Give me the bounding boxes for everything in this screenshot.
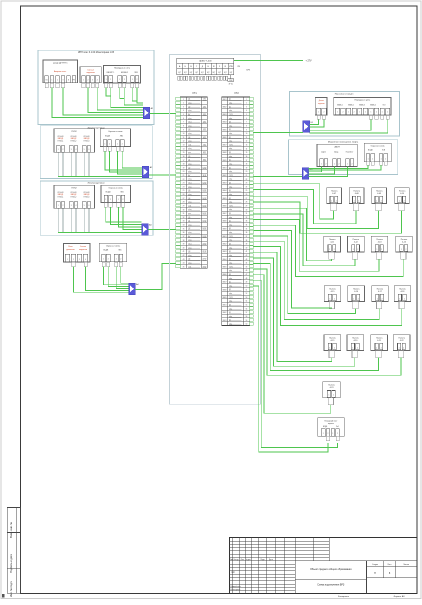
svg-text:1: 1 [83, 80, 84, 82]
svg-text:Д2: Д2 [229, 167, 231, 169]
svg-text:ЩТ: ЩТ [218, 72, 221, 74]
svg-text:ПС1: ПС1 [188, 183, 191, 185]
svg-text:1: 1 [376, 200, 377, 202]
device Охрана и связь (1) [100, 129, 130, 147]
group box Электрощитовая 1 [40, 126, 152, 179]
svg-text:1: 1 [321, 163, 322, 165]
svg-text:1: 1 [334, 163, 335, 165]
svg-text:1: 1 [106, 79, 107, 81]
svg-text:1: 1 [58, 149, 59, 151]
terminal stubs group1 [45, 83, 48, 88]
svg-text:2: 2 [381, 298, 382, 300]
terminal stubs насосная [317, 115, 320, 120]
svg-text:4-11: 4-11 [330, 242, 334, 244]
svg-text:7Л2: 7Л2 [203, 144, 206, 146]
svg-text:ПС1: ПС1 [188, 244, 191, 246]
svg-text:ВВ4В-1: ВВ4В-1 [337, 104, 343, 106]
svg-text:5Л2: 5Л2 [203, 129, 206, 131]
svg-text:Охранная связь: Охранная связь [371, 145, 385, 147]
svg-text:13: 13 [246, 145, 248, 147]
svg-text:4-13: 4-13 [378, 242, 382, 244]
svg-text:Лист: Лист [388, 564, 392, 566]
wires МП to лифт devices [309, 167, 322, 172]
terminal pairs below power block [178, 76, 180, 80]
svg-text:ЩТ: ЩТ [224, 72, 227, 74]
svg-text:Машинное помещение лифта: Машинное помещение лифта [328, 141, 359, 144]
svg-text:4-17: 4-17 [378, 291, 382, 293]
svg-text:2: 2 [124, 79, 125, 81]
svg-text:подпитки: подпитки [79, 249, 87, 251]
svg-text:2: 2 [108, 259, 109, 261]
svg-text:шкаф ДУ НТТ1: шкаф ДУ НТТ1 [53, 62, 68, 65]
block Палата 4-10 [395, 188, 410, 204]
svg-text:3: 3 [92, 80, 93, 82]
svg-text:Палата: Палата [399, 288, 406, 290]
svg-text:Палата: Палата [331, 190, 338, 192]
svg-text:Д3: Д3 [229, 183, 231, 185]
svg-text:2: 2 [339, 163, 340, 165]
svg-text:60: 60 [246, 324, 248, 326]
svg-text:2: 2 [334, 347, 335, 349]
svg-text:Д2: Д2 [229, 137, 231, 139]
svg-text:4-16: 4-16 [354, 291, 358, 293]
block Пожарный пост охраны [318, 418, 345, 436]
svg-text:Передача в цепь: Передача в цепь [355, 100, 371, 102]
svg-text:1: 1 [119, 79, 120, 81]
svg-text:2: 2 [406, 249, 407, 251]
terminal stubs group3 [104, 203, 107, 208]
svg-text:4-20: 4-20 [354, 340, 358, 342]
svg-text:Д2: Д2 [229, 198, 231, 200]
svg-text:2: 2 [365, 112, 366, 114]
device Охранная связь [364, 143, 391, 162]
svg-text:15: 15 [183, 152, 185, 154]
wires XT2 to палаты row 2 [254, 208, 332, 260]
wires XT2 to пожарный пост [254, 280, 338, 447]
svg-text:4: 4 [85, 259, 86, 261]
svg-text:1: 1 [354, 200, 355, 202]
svg-text:6: 6 [88, 205, 89, 207]
block Палата 4-17 [372, 286, 389, 302]
svg-text:Кол.уч: Кол.уч [234, 559, 239, 561]
connector К4 [303, 121, 310, 133]
svg-text:ГЗЛ1: ГЗЛ1 [229, 114, 233, 116]
device Датчик подпитки [315, 97, 327, 115]
svg-text:ЩТ: ЩТ [184, 72, 187, 74]
svg-text:4Л2: 4Л2 [203, 122, 206, 124]
svg-text:1: 1 [103, 259, 104, 261]
svg-text:ВВ04: ВВ04 [223, 259, 227, 261]
svg-text:Д1: Д1 [188, 160, 190, 162]
svg-text:1: 1 [323, 433, 324, 435]
svg-text:23: 23 [246, 183, 248, 185]
svg-text:1: 1 [399, 347, 400, 349]
wire A3 to XT1 [148, 229, 175, 231]
svg-text:ЩТ: ЩТ [230, 72, 233, 74]
wire XT2 to К4 [254, 131, 303, 133]
svg-text:Д4: Д4 [188, 259, 190, 261]
svg-text:ВВ08: ВВ08 [223, 221, 227, 223]
svg-text:17Л2: 17Л2 [203, 221, 207, 223]
svg-text:ГЗЛ1: ГЗЛ1 [229, 266, 233, 268]
svg-text:подпитки: подпитки [86, 72, 94, 74]
wires group1 to connector [52, 88, 143, 118]
svg-text:1: 1 [401, 249, 402, 251]
svg-text:Инв. № подл.: Инв. № подл. [9, 581, 13, 597]
svg-text:Подпись и дата: Подпись и дата [9, 554, 13, 573]
svg-text:3Л2: 3Л2 [203, 114, 206, 116]
svg-text:ВВ03: ВВ03 [223, 114, 227, 116]
svg-text:ВВ03: ВВ03 [223, 183, 227, 185]
connector A3 [142, 224, 149, 236]
svg-text:44: 44 [183, 263, 185, 265]
svg-text:лифт1: лифт1 [321, 151, 326, 154]
svg-text:14: 14 [183, 148, 185, 150]
terminal stubs group4 [72, 262, 75, 267]
svg-text:Д4: Д4 [188, 198, 190, 200]
wires охрана3 to connector [106, 207, 142, 222]
svg-text:давления: давления [66, 249, 74, 251]
svg-text:44: 44 [246, 263, 248, 265]
svg-text:3: 3 [62, 80, 63, 82]
svg-text:Пожарный пост: Пожарный пост [324, 419, 337, 422]
svg-text:4-23: 4-23 [330, 387, 334, 389]
svg-text:6Л2: 6Л2 [203, 137, 206, 139]
svg-text:Палата: Палата [353, 239, 360, 241]
svg-text:3: 3 [71, 205, 72, 207]
svg-text:1: 1 [117, 143, 118, 145]
svg-text:24: 24 [246, 186, 248, 188]
svg-text:2: 2 [376, 112, 377, 114]
svg-text:14Л2: 14Л2 [203, 198, 207, 200]
svg-text:Д2: Д2 [229, 228, 231, 230]
svg-text:Датчик: Датчик [319, 100, 324, 102]
svg-text:2: 2 [110, 79, 111, 81]
svg-text:Лист: Лист [241, 559, 245, 561]
svg-text:2: 2 [381, 347, 382, 349]
svg-text:2: 2 [328, 433, 329, 435]
svg-text:5: 5 [183, 114, 184, 116]
svg-text:Стадия: Стадия [372, 564, 378, 566]
svg-text:СЗ1: СЗ1 [188, 266, 191, 268]
svg-text:33: 33 [183, 221, 185, 223]
block Палата 4-09 [372, 188, 387, 204]
svg-text:1: 1 [337, 112, 338, 114]
svg-text:46: 46 [246, 270, 248, 272]
svg-text:Д1: Д1 [229, 282, 231, 284]
svg-text:ЩТ: ЩТ [190, 72, 193, 74]
svg-text:Д1: Д1 [229, 160, 231, 162]
svg-text:П: П [374, 572, 376, 575]
wires XT2 to палаты row 3 [254, 230, 332, 308]
svg-text:4-14: 4-14 [402, 242, 406, 244]
left stamp box: Инв. № подл. [7, 568, 20, 593]
svg-text:ВСДВ: ВСДВ [103, 250, 109, 252]
svg-text:Электрощитовая: Электрощитовая [87, 183, 105, 185]
svg-text:1: 1 [382, 112, 383, 114]
svg-text:Палата: Палата [377, 288, 384, 290]
svg-text:1: 1 [370, 112, 371, 114]
device ПУ62 (2) [54, 185, 95, 208]
svg-text:2: 2 [109, 143, 110, 145]
svg-text:2: 2 [334, 298, 335, 300]
svg-text:Д1: Д1 [188, 221, 190, 223]
svg-text:N1: N1 [46, 80, 48, 82]
svg-text:2: 2 [333, 395, 334, 397]
svg-text:1: 1 [118, 199, 119, 201]
svg-text:2: 2 [385, 158, 386, 160]
svg-text:5: 5 [84, 205, 85, 207]
svg-text:Д3: Д3 [229, 274, 231, 276]
svg-text:2: 2 [73, 259, 74, 261]
svg-text:43: 43 [246, 259, 248, 261]
svg-text:Дата: Дата [269, 559, 273, 561]
svg-text:ПУ62: ПУ62 [72, 131, 78, 133]
block Палата 4-13 [371, 236, 388, 252]
wire XT2 to МП [254, 175, 303, 177]
svg-text:ЩТ: ЩТ [213, 72, 216, 74]
svg-text:1: 1 [329, 347, 330, 349]
svg-text:Д3: Д3 [229, 213, 231, 215]
svg-text:1: 1 [329, 298, 330, 300]
svg-text:2: 2 [358, 298, 359, 300]
svg-text:ВСДВ: ВСДВ [323, 426, 327, 428]
svg-text:19Л2: 19Л2 [203, 236, 207, 238]
XT1 left connector comb [176, 97, 181, 100]
svg-text:35: 35 [246, 228, 248, 230]
svg-text:ВВ4В-2: ВВ4В-2 [348, 104, 354, 106]
svg-text:охраны: охраны [328, 423, 335, 425]
svg-text:Насосная станция: Насосная станция [335, 93, 354, 95]
svg-text:Палата: Палата [329, 239, 336, 241]
svg-text:Палата: Палата [376, 337, 383, 339]
stubs пожарный пост [326, 436, 329, 441]
svg-text:2: 2 [324, 112, 325, 114]
svg-text:Д2: Д2 [188, 228, 190, 230]
COM box [230, 75, 232, 79]
svg-text:Палата: Палата [398, 337, 405, 339]
svg-text:ПУ62-3: ПУ62-3 [84, 141, 90, 143]
svg-text:18Л2: 18Л2 [203, 228, 207, 230]
svg-text:ВВ09: ВВ09 [223, 297, 227, 299]
svg-text:4-08: 4-08 [355, 193, 359, 195]
svg-text:Палата: Палата [401, 239, 408, 241]
svg-text:2: 2 [342, 112, 343, 114]
svg-text:ПУ62-2: ПУ62-2 [71, 197, 77, 199]
svg-text:Г: Г [196, 66, 197, 68]
wires охрана2 to connector [105, 151, 142, 170]
svg-text:34: 34 [246, 225, 248, 227]
svg-text:1: 1 [399, 298, 400, 300]
svg-text:Н.контроль: Н.контроль [230, 589, 240, 591]
block Палата 4-22 [393, 335, 410, 351]
svg-text:4-12: 4-12 [354, 242, 358, 244]
svg-text:1: 1 [52, 80, 53, 82]
svg-text:ГЗЛ1: ГЗЛ1 [229, 205, 233, 207]
svg-text:СЗ1: СЗ1 [188, 205, 191, 207]
svg-text:20Л2: 20Л2 [203, 244, 207, 246]
left stamp box: Взам. инв. № [7, 508, 20, 533]
svg-text:Схема подключения БРЗ: Схема подключения БРЗ [317, 584, 345, 586]
svg-text:Палата: Палата [376, 239, 383, 241]
svg-text:ЛВЗ: ЛВЗ [134, 72, 137, 74]
wire A4 up to XT1 [135, 263, 175, 289]
svg-text:Палата: Палата [353, 288, 360, 290]
svg-text:1: 1 [376, 347, 377, 349]
svg-text:Копировал: Копировал [338, 596, 350, 598]
wire XT2 to палата 4-23 [254, 275, 331, 414]
svg-text:2: 2 [358, 200, 359, 202]
svg-text:Д2: Д2 [229, 106, 231, 108]
block Палата 4-19 [324, 335, 341, 351]
svg-text:ПС1: ПС1 [188, 122, 191, 124]
svg-text:ПУ62-2: ПУ62-2 [71, 141, 77, 143]
title block revision grid [232, 538, 234, 594]
svg-text:Д2: Д2 [229, 259, 231, 261]
block Палата 4-20 [347, 335, 364, 351]
wire +27V [234, 60, 303, 62]
svg-text:ВВ05: ВВ05 [223, 266, 227, 268]
device ПУ62 (1) [54, 129, 95, 153]
block Палата 4-21 [371, 335, 388, 351]
device Сигнал подпитки [80, 67, 101, 83]
group box Электрощитовая 2 [40, 181, 153, 235]
svg-text:Ж: Ж [213, 66, 215, 68]
svg-text:Палата: Палата [328, 385, 335, 387]
device Охрана и связь (2) [101, 185, 131, 202]
svg-text:ХТ2: ХТ2 [234, 92, 239, 95]
green bus group3 [58, 231, 141, 233]
svg-text:Подп.: Подп. [260, 559, 265, 561]
svg-text:ВВ02: ВВ02 [223, 106, 227, 108]
svg-text:Авар.: Авар. [334, 151, 339, 154]
svg-text:№док.: №док. [246, 558, 251, 561]
svg-text:ЛВ1: ЛВ1 [120, 192, 123, 194]
svg-text:ГЗЛ1: ГЗЛ1 [229, 236, 233, 238]
svg-text:15: 15 [246, 152, 248, 154]
svg-text:1Л2: 1Л2 [203, 99, 206, 101]
svg-text:1: 1 [116, 259, 117, 261]
svg-text:СЗ1: СЗ1 [188, 144, 191, 146]
connector A4 [129, 283, 136, 295]
svg-text:4-10: 4-10 [400, 193, 404, 195]
block Палата 4-11 [324, 236, 341, 252]
svg-text:ВВ07: ВВ07 [223, 145, 227, 147]
svg-text:4-09: 4-09 [377, 193, 381, 195]
svg-text:1: 1 [328, 395, 329, 397]
svg-text:1: 1 [347, 163, 348, 165]
svg-text:PE: PE [73, 80, 75, 82]
svg-text:1: 1 [399, 200, 400, 202]
svg-text:24: 24 [183, 186, 185, 188]
svg-text:Листов: Листов [403, 564, 409, 566]
svg-text:3: 3 [183, 106, 184, 108]
svg-text:21Л2: 21Л2 [203, 251, 207, 253]
svg-text:Охрана и связь: Охрана и связь [109, 187, 123, 189]
group box ИРП пом. 6.1.04 [38, 50, 154, 124]
svg-text:Разработал: Разработал [230, 586, 240, 588]
svg-text:4-22: 4-22 [400, 340, 404, 342]
svg-text:1: 1 [359, 112, 360, 114]
svg-text:подпитки: подпитки [318, 103, 325, 105]
device Охрана и связь (4) [99, 243, 127, 262]
svg-text:6: 6 [88, 149, 89, 151]
svg-text:1: 1 [368, 158, 369, 160]
wires group4 to connector [73, 267, 128, 293]
svg-text:2Л2: 2Л2 [203, 106, 206, 108]
wire A1 to XT1 [150, 113, 176, 115]
svg-text:2: 2 [136, 79, 137, 81]
svg-text:Д2: Д2 [188, 167, 190, 169]
svg-text:Д1: Д1 [229, 129, 231, 131]
svg-text:1: 1 [332, 433, 333, 435]
svg-text:45: 45 [183, 266, 185, 268]
power block ЩЗВ-ГТ-400 [177, 58, 234, 75]
svg-text:55: 55 [246, 305, 248, 307]
svg-text:Пож.Вент: Пож.Вент [346, 152, 354, 154]
svg-text:35: 35 [183, 228, 185, 230]
svg-text:Палата: Палата [329, 337, 336, 339]
svg-text:ВВ09: ВВ09 [223, 228, 227, 230]
block Палата 4-12 [348, 236, 365, 252]
svg-text:4-18: 4-18 [401, 291, 405, 293]
svg-text:Объект среднего общего образов: Объект среднего общего образования [310, 569, 352, 571]
svg-text:4-15: 4-15 [331, 291, 335, 293]
svg-text:2: 2 [337, 433, 338, 435]
svg-text:1: 1 [329, 249, 330, 251]
svg-text:25: 25 [246, 190, 248, 192]
svg-text:1: 1 [67, 259, 68, 261]
svg-text:Д2: Д2 [188, 106, 190, 108]
svg-text:1: 1 [353, 298, 354, 300]
wires XT2 to палаты row 1 [254, 184, 334, 219]
svg-text:13Л2: 13Л2 [203, 190, 207, 192]
svg-text:Д5: Д5 [188, 217, 190, 219]
svg-text:Палата: Палата [352, 337, 359, 339]
svg-text:43: 43 [183, 259, 185, 261]
svg-text:8Л2: 8Л2 [203, 152, 206, 154]
svg-text:ВВ4В-3: ВВ4В-3 [359, 104, 365, 106]
grey drop wires group3 [57, 208, 59, 232]
svg-text:2: 2 [122, 143, 123, 145]
svg-text:Д3: Д3 [229, 244, 231, 246]
svg-text:2: 2 [404, 200, 405, 202]
group box Машинное помещение лифта [288, 140, 397, 175]
svg-text:2: 2 [372, 158, 373, 160]
svg-text:23Л2: 23Л2 [203, 266, 207, 268]
svg-text:2: 2 [336, 200, 337, 202]
svg-text:Д1: Д1 [229, 251, 231, 253]
svg-text:4-21: 4-21 [377, 340, 381, 342]
svg-text:4: 4 [75, 149, 76, 151]
svg-text:Д1: Д1 [229, 190, 231, 192]
page corner mark [2, 594, 4, 597]
svg-text:+ 27V: + 27V [306, 61, 313, 63]
svg-text:Взам. инв. №: Взам. инв. № [9, 522, 13, 538]
svg-text:2: 2 [357, 347, 358, 349]
green bus group2 [58, 175, 142, 177]
svg-text:ГЗЛ1: ГЗЛ1 [229, 175, 233, 177]
svg-text:4: 4 [75, 205, 76, 207]
svg-text:9Л2: 9Л2 [203, 160, 206, 162]
terminal stubs group2 [103, 147, 106, 152]
svg-text:53: 53 [246, 297, 248, 299]
XT2 right connector comb [250, 97, 254, 100]
svg-text:2: 2 [354, 112, 355, 114]
group box Насосная станция [289, 91, 399, 136]
svg-text:2: 2 [57, 80, 58, 82]
svg-text:ПУ62-3: ПУ62-3 [84, 197, 90, 199]
